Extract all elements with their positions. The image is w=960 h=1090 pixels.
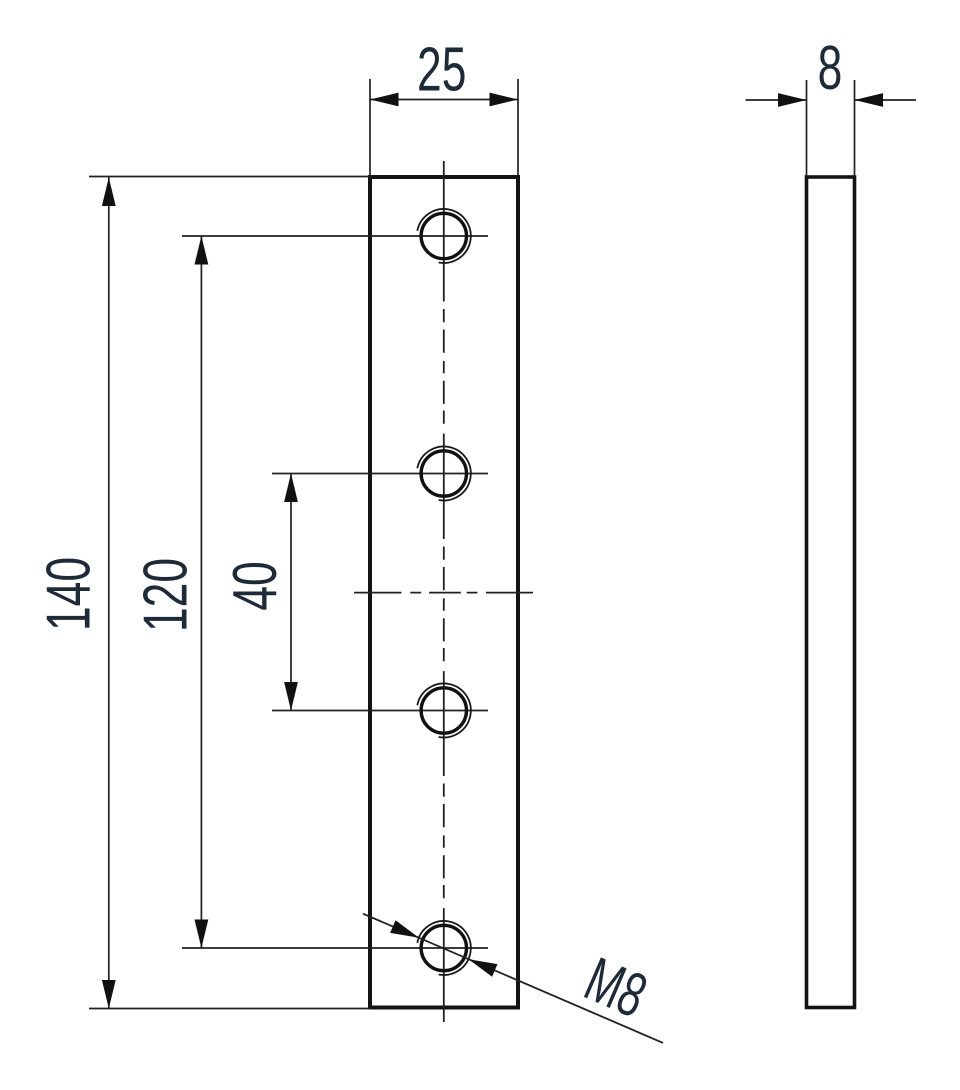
svg-text:120: 120 <box>131 558 200 632</box>
dim 140 bottom extension line <box>89 1008 370 1010</box>
dim 8 dimension line right tail <box>855 99 917 101</box>
vertical centerline through holes (dashed) <box>443 161 445 1022</box>
dim 140 dimension line <box>108 178 110 1009</box>
dim 8 dimension line left tail <box>746 99 807 101</box>
hole 3 centerline cross <box>272 710 488 712</box>
hole 2 tapped hole circle <box>421 451 466 496</box>
dim 8 extension line right <box>854 80 856 176</box>
dim 8 arrow left <box>778 93 807 107</box>
svg-text:25: 25 <box>417 35 466 104</box>
svg-text:40: 40 <box>221 561 290 610</box>
horizontal centerline of plate (dash-dot) <box>354 592 533 594</box>
dim 25 arrow left <box>370 93 399 107</box>
svg-text:8: 8 <box>818 34 843 103</box>
dim 25 extension line left <box>369 79 371 176</box>
svg-text:140: 140 <box>34 557 103 631</box>
dim 8 extension line left <box>806 80 808 176</box>
M8 leader arrow upper-left <box>390 920 422 944</box>
dim 25 arrow right <box>490 93 519 107</box>
hole 2 thread arc <box>417 446 471 500</box>
hole 1 centerline cross <box>182 235 488 237</box>
dim 40 dimension line <box>290 474 292 711</box>
dim 25 extension line right <box>517 79 519 176</box>
dim 120 dimension line <box>200 236 202 948</box>
hole 2 centerline cross <box>272 473 488 475</box>
svg-text:M8: M8 <box>575 945 656 1032</box>
dim 40 arrow top <box>284 474 298 503</box>
dim 140 arrow top <box>102 178 116 207</box>
dim 120 arrow top <box>195 236 209 265</box>
M8 leader arrow lower-right <box>466 953 498 977</box>
M8 leader line <box>363 914 663 1043</box>
hole 4 thread arc <box>417 921 471 975</box>
hole 4 centerline cross <box>182 947 488 949</box>
dim 40 arrow bottom <box>284 682 298 711</box>
dim 8 arrow right <box>855 93 884 107</box>
side view plate outline <box>807 177 855 1008</box>
dim 120 arrow bottom <box>195 920 209 949</box>
dim 140 top extension line <box>89 176 370 178</box>
hole 1 tapped hole circle <box>421 213 466 258</box>
hole 3 thread arc <box>417 683 471 737</box>
hole 3 tapped hole circle <box>421 688 466 733</box>
front view plate outline <box>370 177 518 1008</box>
dim 140 arrow bottom <box>102 980 116 1009</box>
hole 1 thread arc <box>417 209 471 263</box>
hole 4 tapped hole circle <box>421 925 466 970</box>
dim 25 dimension line <box>370 99 518 101</box>
